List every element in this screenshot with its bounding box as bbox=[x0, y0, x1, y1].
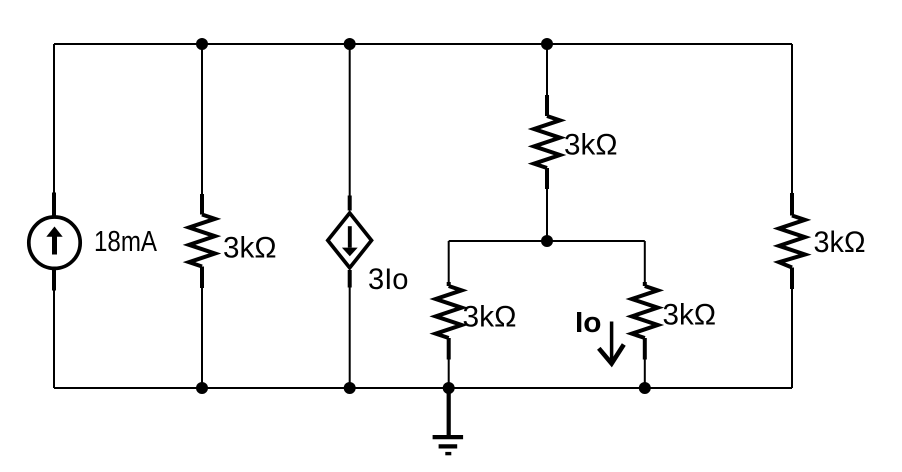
svg-text:3kΩ: 3kΩ bbox=[814, 226, 866, 259]
svg-text:3kΩ: 3kΩ bbox=[463, 301, 517, 334]
svg-text:3kΩ: 3kΩ bbox=[223, 231, 277, 264]
svg-text:18mA: 18mA bbox=[94, 226, 157, 258]
svg-text:Io: Io bbox=[575, 307, 602, 339]
svg-text:3kΩ: 3kΩ bbox=[564, 129, 618, 162]
svg-text:3Io: 3Io bbox=[368, 263, 409, 296]
svg-text:3kΩ: 3kΩ bbox=[663, 299, 717, 332]
